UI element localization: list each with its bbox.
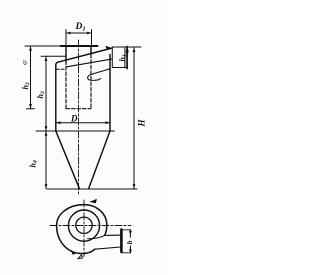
svg-text:h4: h4	[29, 160, 39, 167]
baseline	[47, 188, 137, 190]
svg-text:D1: D1	[75, 22, 86, 33]
dimension D	[56, 121, 110, 124]
inlet duct top line plan	[105, 234, 121, 236]
cylinder bottom line	[36, 130, 115, 132]
plan outlet pipe circle	[76, 217, 92, 233]
inlet cover incline	[56, 48, 113, 65]
outlet pipe hidden bottom	[66, 108, 91, 110]
inlet duct lower edge	[66, 59, 112, 67]
svg-text:h2: h2	[21, 82, 31, 89]
inlet flange plan	[120, 230, 123, 252]
pipe flange top	[61, 45, 98, 47]
h2 top reference line	[25, 45, 61, 47]
inlet opening rectangle	[112, 47, 127, 69]
dimension H line	[133, 47, 136, 189]
svg-text:H: H	[137, 119, 147, 128]
plan horizontal centerline	[50, 225, 131, 227]
outlet pipe hidden walls (dashed)	[66, 54, 91, 108]
plan vertical centerline	[83, 200, 85, 257]
dimension h4 line	[45, 131, 48, 189]
dimension h2 line	[29, 46, 32, 109]
dimension b	[129, 230, 132, 253]
cone left edge	[56, 131, 80, 189]
cone right edge	[89, 131, 110, 189]
inlet duct bottom line plan	[95, 247, 121, 249]
dimension D1 line	[66, 30, 92, 45]
svg-text:h1: h1	[118, 54, 128, 61]
body left wall	[55, 65, 57, 131]
body right wall	[109, 55, 111, 132]
rotation arrow top	[89, 199, 97, 203]
svg-text:b: b	[125, 240, 134, 244]
flange bolt dot	[126, 50, 128, 53]
inlet flow arrowhead	[106, 46, 113, 50]
svg-text:h3: h3	[36, 91, 46, 98]
dimension h3 line	[45, 56, 48, 131]
scroll hook curve	[88, 69, 110, 81]
scroll tongue	[88, 235, 105, 238]
h2 bottom tick	[27, 108, 35, 110]
plan body circle	[68, 210, 99, 241]
small mark below scroll	[78, 255, 83, 259]
centerline front view	[78, 40, 80, 196]
h3 top tick	[41, 55, 66, 57]
rotation arrow bottom left	[71, 250, 76, 255]
svg-text:ά: ά	[20, 57, 30, 67]
svg-text:D: D	[70, 114, 78, 124]
top reference line right	[112, 46, 141, 48]
outlet pipe walls (solid)	[66, 47, 91, 61]
scroll outer wall	[57, 205, 107, 254]
inlet duct hidden lower edge (dashed)	[56, 68, 65, 70]
flange corner ticks	[121, 230, 131, 253]
